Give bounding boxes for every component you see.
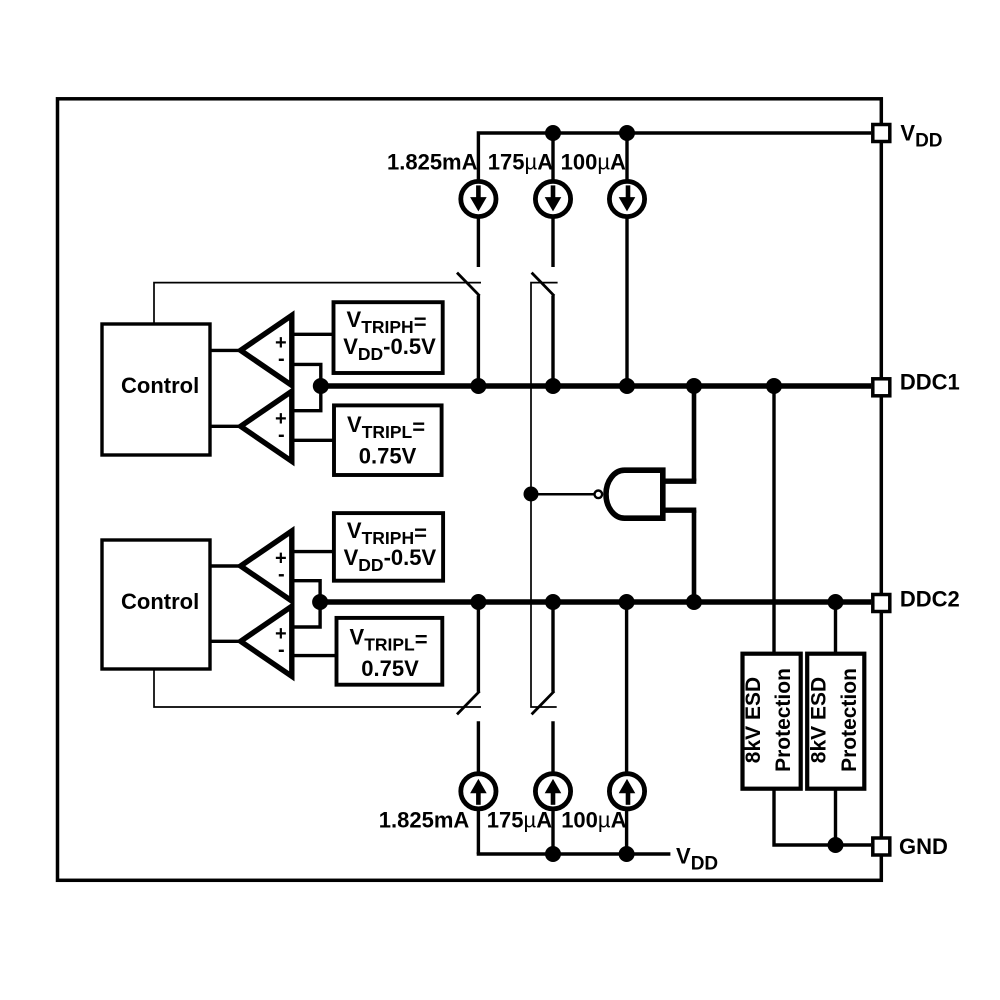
svg-text:0.75V: 0.75V <box>361 656 419 681</box>
svg-text:175µA: 175µA <box>487 808 552 833</box>
svg-text:DDC1: DDC1 <box>900 369 960 394</box>
svg-text:100µA: 100µA <box>561 808 626 833</box>
svg-text:DDC2: DDC2 <box>900 587 960 612</box>
svg-text:100µA: 100µA <box>561 149 626 174</box>
svg-text:1.825mA: 1.825mA <box>387 149 478 174</box>
svg-text:-: - <box>278 348 285 370</box>
svg-text:Protection: Protection <box>772 668 795 772</box>
svg-text:Protection: Protection <box>838 668 861 772</box>
svg-text:-: - <box>278 564 285 586</box>
svg-text:1.825mA: 1.825mA <box>379 808 470 833</box>
svg-text:Control: Control <box>121 373 199 398</box>
svg-text:VDD: VDD <box>900 120 942 151</box>
svg-text:0.75V: 0.75V <box>359 444 417 469</box>
svg-text:VDD: VDD <box>676 844 718 875</box>
svg-text:GND: GND <box>899 834 948 859</box>
svg-text:-: - <box>278 639 285 661</box>
svg-text:-: - <box>278 424 285 446</box>
svg-text:8kV ESD: 8kV ESD <box>808 677 831 763</box>
svg-text:8kV ESD: 8kV ESD <box>742 677 765 763</box>
svg-text:175µA: 175µA <box>488 149 553 174</box>
svg-text:Control: Control <box>121 589 199 614</box>
